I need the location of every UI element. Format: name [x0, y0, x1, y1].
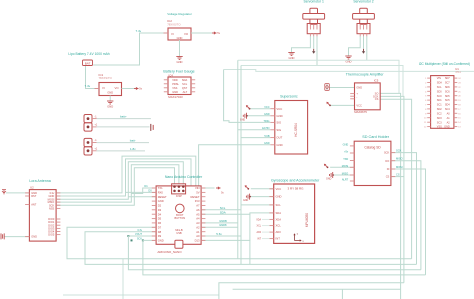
svg-text:A7: A7 [196, 204, 200, 208]
svg-text:PRSL: PRSL [172, 82, 179, 86]
svg-text:AD0: AD0 [276, 230, 282, 234]
designator IC2 [167, 19, 172, 23]
net label D1/TX [144, 184, 148, 188]
svg-text:GND: GND [177, 36, 183, 40]
axis indicator [293, 233, 304, 244]
wire bottom bus 5 [219, 283, 404, 299]
svg-text:batt-: batt- [130, 139, 136, 143]
label Thermocouple Amplifier [346, 72, 385, 76]
wire bus H2 servo rail [241, 66, 403, 97]
svg-text:GND: GND [276, 195, 282, 199]
label SD Card Holder [362, 135, 390, 139]
arrow servo2 signal [362, 49, 365, 54]
svg-text:Thermocouple Amplifier: Thermocouple Amplifier [346, 72, 385, 76]
ground IC1 [107, 101, 113, 109]
net stub gyro INT [257, 239, 269, 241]
svg-text:QST: QST [182, 86, 188, 90]
svg-text:batt+: batt+ [120, 115, 127, 119]
svg-text:A5: A5 [196, 212, 200, 216]
net label SD r2 [396, 157, 403, 161]
svg-text:SD5: SD5 [445, 95, 450, 98]
wire BAT down to IC1 input [86, 66, 100, 89]
sma connector symbol [1, 233, 4, 239]
svg-text:VSS: VSS [172, 86, 177, 90]
thermocouple amp IC5 [350, 83, 380, 110]
svg-text:VCC: VCC [276, 187, 282, 191]
svg-text:VIN: VIN [195, 186, 200, 190]
wire lora pin to nano bus 4 [56, 165, 179, 202]
svg-text:VSS: VSS [437, 126, 442, 129]
net label sd +5v [344, 151, 349, 154]
svg-text:GND: GND [326, 178, 332, 181]
svg-text:SCK: SCK [137, 238, 142, 241]
svg-text:GND: GND [264, 142, 270, 145]
wire batt+ connector [97, 118, 151, 120]
wire 1.8v connector [97, 150, 146, 152]
svg-text:U2: U2 [30, 186, 34, 190]
wire supersonic VCC [250, 108, 271, 110]
wire SD right SCK [391, 153, 417, 265]
svg-text:ALRT: ALRT [342, 179, 349, 182]
net label GND8 [219, 223, 227, 227]
connector J2 aux [84, 138, 98, 155]
designator IC1 [99, 73, 104, 77]
svg-text:CS: CS [396, 173, 400, 177]
svg-text:RX0: RX0 [158, 191, 164, 195]
svg-text:SDA: SDA [182, 78, 188, 82]
net label 7.4v (IC2 input) [136, 29, 142, 33]
svg-text:A2: A2 [196, 225, 200, 229]
svg-text:GND: GND [158, 199, 164, 203]
svg-text:ECHO: ECHO [262, 127, 269, 130]
net label 3.3v [137, 229, 142, 232]
svg-text:Voltage Regulator: Voltage Regulator [167, 12, 192, 16]
svg-text:SC4: SC4 [445, 108, 450, 111]
wire to supersonic pin5 [241, 137, 271, 139]
svg-text:ICSP: ICSP [176, 194, 182, 198]
net label SD r3 [396, 165, 403, 169]
wire gyro GND [250, 196, 274, 198]
svg-text:TRIG: TRIG [264, 120, 270, 123]
wire bottom bus 6 [233, 288, 401, 290]
fuel gauge IC4 [164, 77, 195, 95]
connector J1 battery [84, 115, 98, 132]
svg-text:GND: GND [289, 56, 295, 60]
svg-text:SCK: SCK [396, 149, 402, 153]
svg-text:SC5: SC5 [445, 99, 450, 102]
svg-text:DO: DO [385, 159, 389, 163]
svg-text:GNDB: GNDB [219, 219, 227, 223]
svg-text:GND: GND [264, 113, 270, 116]
wire SD MISO in [333, 174, 355, 176]
thermo connector [325, 84, 330, 91]
svg-text:GND: GND [243, 199, 249, 202]
net label 1.8v [130, 147, 136, 151]
svg-text:VI: VI [171, 32, 174, 36]
wire bottom bus 4 [143, 240, 426, 275]
svg-text:GND: GND [107, 90, 113, 94]
net label 7.4v (IC1 input) [85, 84, 91, 88]
designator IC4 [169, 73, 174, 77]
svg-text:GND: GND [172, 90, 178, 94]
svg-text:Lora Antenna: Lora Antenna [29, 179, 50, 183]
net label SD r1 [396, 149, 402, 153]
svg-text:SIG: SIG [276, 121, 281, 125]
svg-text:SCK: SCK [384, 151, 390, 155]
flag BAT [83, 60, 93, 66]
net label supersonic 5.6B [264, 135, 269, 138]
net label sd ALRT [342, 179, 349, 182]
svg-text:-: - [356, 95, 357, 99]
label Voltage Regulator [167, 12, 192, 16]
svg-text:A1: A1 [196, 230, 200, 234]
lora module U2 [25, 190, 60, 242]
value 78XXS IC1 [99, 76, 113, 80]
svg-text:VCC: VCC [264, 106, 269, 109]
value ARDUINO_NANO [157, 250, 182, 254]
net label supersonic GND [264, 113, 270, 116]
svg-text:1.8v: 1.8v [130, 147, 136, 151]
svg-text:A6: A6 [196, 208, 200, 212]
wire bottom bus 6 drop [341, 289, 343, 299]
wire batt- bottom connector [97, 142, 150, 144]
usb connector [175, 228, 183, 248]
wire nano 5.6v [201, 235, 241, 237]
svg-text:A0: A0 [196, 234, 200, 238]
supply arrow gyro VCC [245, 185, 250, 190]
net label SDA [220, 210, 226, 214]
wire lora pin to nano bus 3 [56, 162, 183, 200]
net label supersonic GND [264, 142, 270, 145]
net label SCL [220, 206, 226, 210]
svg-text:GND: GND [276, 143, 282, 147]
supply arrow IC1 out [134, 87, 143, 91]
svg-text:D6: D6 [158, 221, 162, 225]
sd card holder U4 [350, 141, 395, 185]
svg-text:D3: D3 [158, 208, 162, 212]
label Servomotor 2 [353, 0, 373, 4]
wire bottom bus 3 [128, 236, 421, 270]
net label sd MOSI [342, 165, 349, 168]
svg-text:GND: GND [177, 60, 183, 64]
svg-text:D1: D1 [144, 184, 148, 188]
svg-text:Lipo Battery 7.4V 1000 mAh: Lipo Battery 7.4V 1000 mAh [68, 52, 109, 56]
value MAX6675 [354, 110, 367, 114]
svg-text:GND: GND [343, 143, 349, 146]
svg-text:7.4v: 7.4v [136, 29, 142, 33]
net label supersonic TRIG [264, 120, 270, 123]
svg-text:DIO5: DIO5 [48, 233, 55, 237]
wire SDA nano to gyro [201, 213, 274, 214]
svg-text:OUT: OUT [276, 136, 282, 140]
wire SD right CS [391, 176, 404, 178]
svg-text:RST: RST [31, 194, 37, 198]
svg-text:Gyroscope and Accelerometer: Gyroscope and Accelerometer [271, 179, 320, 183]
svg-text:SIG: SIG [276, 128, 281, 132]
ground tag gyro [243, 194, 251, 203]
net label SD r4 [396, 173, 400, 177]
svg-text:GND8: GND8 [219, 223, 227, 227]
wire bus V2 [240, 66, 242, 265]
wire bus H1 servo rail [238, 60, 399, 93]
svg-text:CS: CS [375, 97, 379, 101]
svg-text:D4: D4 [158, 212, 162, 216]
label Gyroscope and Accelerometer [271, 179, 320, 183]
svg-text:RESET: RESET [158, 195, 167, 199]
wire thermo SO [380, 93, 400, 299]
svg-text:D8: D8 [158, 230, 162, 234]
svg-text:MOSI: MOSI [342, 165, 349, 168]
svg-text:ARDUINO_NANO: ARDUINO_NANO [157, 250, 182, 254]
wire bottom bus 2 [85, 232, 417, 265]
svg-text:MAX17043: MAX17043 [168, 95, 183, 99]
svg-text:XDA: XDA [276, 218, 282, 222]
svg-text:TXD: TXD [343, 158, 348, 161]
wire nano VIN supply [201, 187, 214, 189]
svg-text:SD4: SD4 [445, 104, 450, 107]
wire batt- top connector [97, 126, 150, 128]
wire thermo SCK [380, 96, 404, 282]
servo motor M1 [303, 8, 325, 36]
label Lipo Battery [68, 52, 109, 56]
svg-text:GND: GND [31, 235, 37, 239]
svg-text:MISO: MISO [342, 173, 348, 176]
svg-text:AD0: AD0 [257, 231, 262, 234]
arduino nano U5 [152, 186, 206, 244]
net label 5.6v [216, 232, 222, 236]
svg-text:ALT: ALT [183, 90, 188, 94]
supply arrow supersonic VCC [246, 105, 251, 110]
svg-text:Catalog SD: Catalog SD [364, 145, 381, 149]
svg-text:7.4v: 7.4v [85, 84, 91, 88]
ground tag supersonic [240, 113, 248, 122]
designator U1 [455, 67, 461, 74]
net label sd TXD [343, 158, 348, 161]
svg-text:A4: A4 [196, 217, 200, 221]
svg-text:Nano Arduino Controller: Nano Arduino Controller [165, 175, 203, 179]
svg-text:SDA: SDA [220, 210, 226, 214]
svg-text:5V: 5V [196, 191, 199, 195]
wire lora-RX to nano TX1 [126, 191, 157, 193]
wire gyro VCC [251, 188, 274, 190]
svg-text:SD1: SD1 [437, 99, 442, 102]
svg-text:MISO: MISO [396, 157, 403, 161]
svg-text:SC2: SC2 [437, 112, 442, 115]
supply arrow nano VIN [216, 186, 225, 194]
wire IC1 gnd stub [109, 96, 111, 102]
wire nano bottom right [201, 239, 250, 241]
svg-text:HC-SR04: HC-SR04 [294, 123, 298, 137]
wire servo2 vcc to bus H1 [366, 36, 368, 60]
svg-text:Servomotor 2: Servomotor 2 [353, 0, 373, 4]
svg-text:GND: GND [158, 239, 164, 243]
wire nano GND8 [201, 226, 238, 228]
svg-text:GND: GND [107, 105, 113, 109]
wire to supersonic pin4 [238, 129, 271, 131]
wire thermo input [329, 87, 354, 89]
svg-text:CS: CS [386, 175, 390, 179]
svg-text:NSS: NSS [49, 207, 55, 211]
arrow servo1 signal [312, 49, 315, 54]
net label batt- [130, 139, 136, 143]
wire servo2 gnd [349, 36, 361, 56]
wire SCL nano to gyro [201, 205, 274, 210]
i2c multiplexer U1 [424, 76, 462, 129]
value 78XXS IC2 [167, 23, 181, 27]
svg-text:5.6v: 5.6v [216, 232, 222, 236]
svg-text:SDA: SDA [276, 211, 282, 215]
svg-text:INT: INT [276, 237, 281, 241]
antenna symbol [2, 190, 6, 195]
wire bottom bus 7 [63, 294, 219, 296]
net label sd GND [343, 143, 349, 146]
svg-text:SC1: SC1 [437, 104, 442, 107]
wire bus V1 [237, 60, 239, 258]
svg-text:SCL: SCL [220, 206, 226, 210]
svg-text:IC5: IC5 [374, 78, 379, 82]
svg-text:3V3: 3V3 [195, 199, 200, 203]
ground servo1 [288, 53, 294, 61]
ground tag SD [326, 172, 334, 181]
net stub gyro AD0 [257, 231, 270, 234]
svg-text:SCL: SCL [437, 86, 442, 89]
wire servo2 signal [363, 36, 365, 49]
label I2C Multiplexer [419, 62, 470, 66]
svg-text:GND: GND [356, 86, 362, 90]
wire thermo CS [380, 99, 411, 259]
svg-text:SD Card Holder: SD Card Holder [362, 135, 390, 139]
wire lora pin to nano bus 5 [56, 168, 174, 206]
svg-text:D7: D7 [158, 225, 162, 229]
net label GNDB [219, 219, 227, 223]
supply arrow IC2 out [212, 31, 221, 35]
boot button [174, 204, 185, 220]
label Nano Arduino Controller [165, 175, 203, 179]
svg-text:D0: D0 [148, 189, 152, 193]
svg-text:VCC: VCC [356, 103, 362, 107]
svg-text:VIN: VIN [437, 77, 441, 80]
label Lora Antenna [29, 179, 50, 183]
wire IC2 gnd stub [179, 40, 181, 57]
net label batt+ [120, 115, 127, 119]
net label D0/RX [148, 189, 152, 193]
net stub gyro XCL [257, 226, 270, 228]
wire IC1 output [122, 88, 135, 90]
wire SD right MOSI [391, 169, 426, 275]
designator IC5 [374, 78, 379, 82]
svg-text:XCL: XCL [257, 226, 262, 228]
net label supersonic VCC [264, 106, 269, 109]
svg-text:VI: VI [102, 86, 105, 90]
wire lora pin to nano bus 1 [56, 156, 196, 193]
svg-text:SCL: SCL [276, 203, 282, 207]
svg-text:Servomotor 1: Servomotor 1 [304, 0, 324, 4]
svg-text:78XXS/TO: 78XXS/TO [99, 76, 113, 80]
svg-text:I2C Multiplexer (Still un-Conf: I2C Multiplexer (Still un-Confirmed) [419, 62, 470, 66]
svg-text:5.6B: 5.6B [264, 135, 269, 138]
svg-text:SD7: SD7 [445, 77, 450, 80]
designator U2 [30, 186, 34, 190]
svg-text:VDD: VDD [172, 78, 178, 82]
svg-text:D2: D2 [158, 204, 162, 208]
junction dots bottom-left [127, 235, 143, 241]
wire SD right MISO [391, 161, 421, 270]
wire lora pin to nano bus 2 [56, 159, 191, 196]
wire antenna to lora [6, 192, 29, 194]
label Servomotor 1 [304, 0, 324, 4]
net label supersonic ECHO [262, 127, 269, 130]
wire servo1 signal [313, 36, 315, 49]
svg-text:MPU6050: MPU6050 [305, 213, 309, 227]
svg-text:SD2: SD2 [437, 108, 442, 111]
net label SCK2 [137, 238, 142, 241]
wire to supersonic pin6 [199, 145, 271, 186]
wire supersonic GND [247, 115, 271, 117]
svg-text:ANT: ANT [31, 203, 37, 207]
svg-text:GND: GND [276, 114, 282, 118]
wire BAT to voltage regulator IC2 input [93, 33, 168, 65]
svg-text:INT: INT [257, 239, 261, 241]
wire bottom bus 1 [67, 227, 412, 258]
svg-text:RESET: RESET [191, 195, 200, 199]
net label sd MISO [342, 173, 348, 176]
svg-text:D13: D13 [195, 239, 200, 243]
label Battery Fuel Gauge [163, 70, 194, 74]
wire sma to lora gnd [4, 236, 29, 238]
label Supersonic [280, 95, 298, 99]
gyroscope GY-521 [269, 184, 314, 243]
svg-text:BUTTON: BUTTON [174, 216, 185, 220]
svg-text:SD0: SD0 [437, 90, 442, 93]
value MAX17043 [168, 95, 183, 99]
svg-text:SD3: SD3 [437, 117, 442, 120]
supply arrow thermo VCC [326, 102, 331, 107]
net stub gyro XDA [256, 218, 269, 221]
svg-text:TX1: TX1 [158, 186, 163, 190]
svg-text:USB: USB [176, 231, 182, 235]
voltage regulator IC2 [164, 28, 196, 40]
svg-text:D5: D5 [158, 217, 162, 221]
svg-text:4711: 4711 [455, 70, 461, 74]
wire thermo VCC [330, 104, 355, 106]
net label VOUT [135, 233, 142, 236]
wire SDA bus down [249, 214, 251, 264]
svg-text:BAT: BAT [85, 61, 91, 65]
svg-text:SC3: SC3 [437, 121, 442, 124]
icsp header [172, 184, 186, 198]
wire nano GNDB [201, 222, 238, 224]
svg-text:MOSI: MOSI [396, 165, 403, 169]
svg-text:MAX6675: MAX6675 [354, 110, 367, 114]
wire servo1 vcc to bus H2 [316, 36, 318, 66]
wire to supersonic TRIG [224, 70, 271, 123]
servo motor M2 [353, 8, 375, 36]
wire bus H3 long rail [224, 70, 474, 72]
svg-text:U1: U1 [455, 67, 459, 71]
svg-text:3 RY 58 RG: 3 RY 58 RG [287, 187, 304, 191]
svg-text:A3: A3 [196, 221, 200, 225]
svg-text:GND: GND [240, 118, 246, 121]
svg-text:78XXS/TO: 78XXS/TO [167, 23, 181, 27]
supply arrow SD [324, 164, 329, 169]
svg-text:XDA: XDA [256, 218, 261, 221]
wire lora-TX to nano RX0 [131, 188, 156, 194]
wire SD MOSI in [330, 166, 354, 168]
wire nano left pin 3 [128, 196, 156, 198]
ultrasonic sensor U3 [271, 101, 308, 155]
wire IC2 output [191, 32, 212, 34]
svg-text:SC7: SC7 [445, 82, 450, 85]
